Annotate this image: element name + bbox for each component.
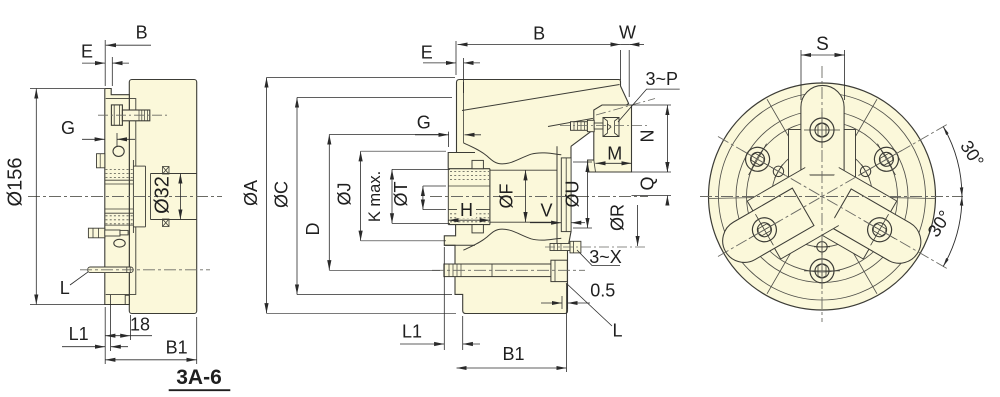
svg-text:H: H [460,200,473,220]
svg-text:B1: B1 [502,344,524,364]
svg-text:ØC: ØC [272,181,292,208]
svg-text:E: E [81,42,93,62]
svg-text:L: L [612,321,622,341]
svg-text:V: V [540,201,552,221]
svg-text:0.5: 0.5 [590,281,615,301]
svg-text:18: 18 [130,315,150,335]
svg-text:ØT: ØT [391,181,411,206]
svg-text:3~P: 3~P [646,69,679,89]
svg-text:Ø32: Ø32 [152,176,174,214]
svg-text:G: G [417,113,431,133]
svg-text:Q: Q [638,176,658,190]
svg-text:L1: L1 [402,322,422,342]
svg-text:D: D [303,223,323,236]
svg-text:L: L [60,278,70,298]
svg-text:ØA: ØA [241,180,261,206]
svg-text:ØR: ØR [608,204,628,231]
svg-text:S: S [816,34,829,55]
svg-text:L1: L1 [69,324,89,344]
svg-text:W: W [619,23,636,43]
svg-text:B: B [136,23,148,43]
svg-text:E: E [421,43,433,63]
svg-text:3A-6: 3A-6 [176,366,222,389]
svg-text:ØU: ØU [563,181,583,208]
svg-text:M: M [607,144,622,164]
svg-text:N: N [638,130,658,143]
svg-text:B1: B1 [166,338,188,358]
svg-text:B: B [533,24,545,44]
svg-text:ØJ: ØJ [335,182,355,205]
svg-text:K max.: K max. [366,171,384,222]
svg-text:ØF: ØF [497,183,517,208]
svg-text:Ø156: Ø156 [5,158,27,207]
svg-text:3~X: 3~X [589,247,622,267]
svg-text:G: G [61,118,75,138]
